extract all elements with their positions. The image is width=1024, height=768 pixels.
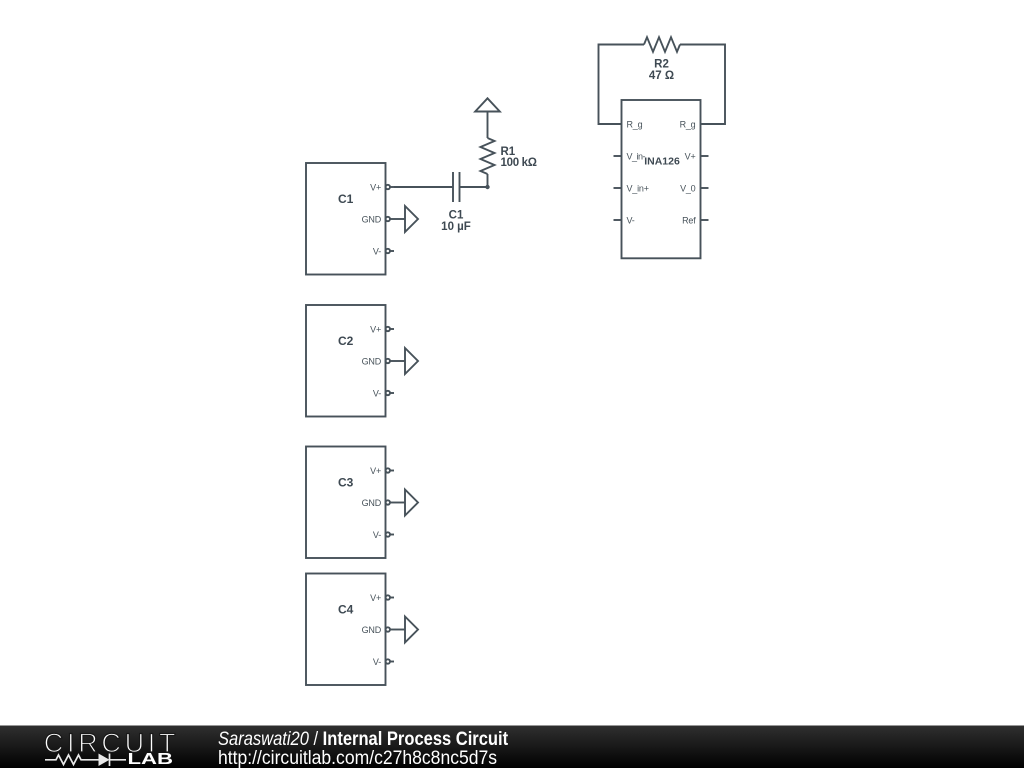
svg-text:V_in+: V_in+ xyxy=(627,184,649,194)
pin V_in- of INA126 xyxy=(614,152,646,162)
svg-text:V-: V- xyxy=(627,216,635,226)
pin V- of C3 xyxy=(373,530,394,540)
svg-text:V-: V- xyxy=(373,530,381,540)
svg-text:R_g: R_g xyxy=(680,120,696,130)
svg-text:C3: C3 xyxy=(338,476,354,490)
svg-text:V+: V+ xyxy=(370,466,381,476)
svg-text:C2: C2 xyxy=(338,334,354,348)
resistor R2 xyxy=(644,37,680,82)
pin GND of C4 xyxy=(362,625,405,635)
svg-text:V+: V+ xyxy=(685,152,696,162)
svg-text:V+: V+ xyxy=(370,325,381,335)
svg-text:V+: V+ xyxy=(370,593,381,603)
capacitor C1 xyxy=(441,172,471,233)
pin V- of C1 xyxy=(373,247,394,257)
pin V+ of C1 xyxy=(370,183,394,193)
block C2 xyxy=(306,305,386,417)
pin V- of C2 xyxy=(373,389,394,399)
block C3 xyxy=(306,447,386,559)
output flag of C1 xyxy=(405,206,418,232)
svg-text:C1: C1 xyxy=(338,192,354,206)
svg-text:10 µF: 10 µF xyxy=(441,221,471,233)
svg-text:http://circuitlab.com/c27h8c8n: http://circuitlab.com/c27h8c8nc5d7s xyxy=(218,746,497,768)
wire R_g loop left xyxy=(599,45,645,125)
svg-text:INA126: INA126 xyxy=(644,156,680,168)
resistor R1 xyxy=(481,112,537,188)
svg-text:V-: V- xyxy=(373,247,381,257)
svg-text:GND: GND xyxy=(362,357,382,367)
pin GND of C3 xyxy=(362,498,405,508)
block C1 xyxy=(306,163,386,275)
output flag of C2 xyxy=(405,348,418,374)
svg-text:Ref: Ref xyxy=(682,216,696,226)
pin V- of INA126 xyxy=(614,216,635,226)
wire R_g loop right xyxy=(680,45,725,125)
pin V+ of C2 xyxy=(370,325,394,335)
pin GND of C1 xyxy=(362,215,405,225)
op-amp U1 INA126 xyxy=(622,100,701,258)
block C4 xyxy=(306,574,386,686)
svg-text:C1: C1 xyxy=(449,210,464,222)
pin GND of C2 xyxy=(362,357,405,367)
pin Ref of INA126 xyxy=(682,216,708,226)
svg-text:R2: R2 xyxy=(654,59,669,71)
logo resistor-diode glyph xyxy=(45,754,126,767)
wire capacitor to node xyxy=(460,186,488,188)
svg-text:V_0: V_0 xyxy=(680,184,696,194)
svg-text:R_g: R_g xyxy=(627,120,643,130)
svg-text:V-: V- xyxy=(373,657,381,667)
wire C1.V+ to capacitor xyxy=(394,186,453,188)
svg-text:V+: V+ xyxy=(370,183,381,193)
svg-text:LAB: LAB xyxy=(128,751,174,768)
svg-text:GND: GND xyxy=(362,625,382,635)
pin V+ of INA126 xyxy=(685,152,709,162)
node junction xyxy=(485,185,489,189)
svg-text:100 kΩ: 100 kΩ xyxy=(501,157,537,169)
power flag V+ xyxy=(475,98,500,111)
pin V+ of C4 xyxy=(370,593,394,603)
pin V_0 of INA126 xyxy=(680,184,708,194)
output flag of C3 xyxy=(405,490,418,516)
svg-text:V_in-: V_in- xyxy=(627,152,646,162)
svg-text:47 Ω: 47 Ω xyxy=(649,70,674,82)
pin V_in+ of INA126 xyxy=(614,184,649,194)
pin V- of C4 xyxy=(373,657,394,667)
svg-text:V-: V- xyxy=(373,389,381,399)
footer bar xyxy=(0,726,1024,768)
pin V+ of C3 xyxy=(370,466,394,476)
svg-text:C4: C4 xyxy=(338,603,354,617)
svg-text:GND: GND xyxy=(362,215,382,225)
output flag of C4 xyxy=(405,617,418,643)
svg-text:GND: GND xyxy=(362,498,382,508)
